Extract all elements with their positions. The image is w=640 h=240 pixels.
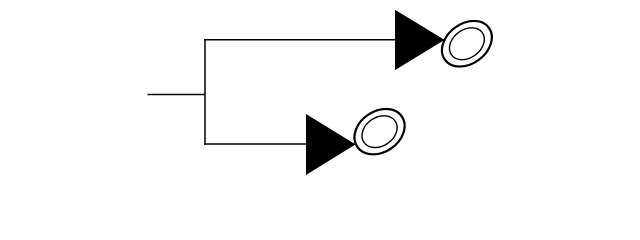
arrowhead bottom (filled triangle): [306, 114, 356, 175]
wire bottom branch: [204, 143, 307, 145]
arrowhead top (filled triangle): [395, 10, 445, 70]
ring top (double ellipse): [433, 12, 501, 76]
wire top branch: [204, 39, 396, 41]
ring bottom (double ellipse): [346, 100, 413, 164]
wire vertical branch: [204, 39, 206, 145]
wire input stub: [148, 94, 206, 96]
